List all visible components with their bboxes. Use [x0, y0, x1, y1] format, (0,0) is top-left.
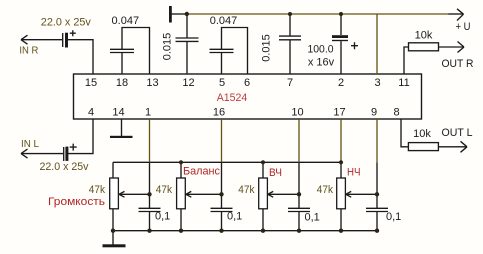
- svg-text:10k: 10k: [413, 128, 431, 140]
- svg-text:16: 16: [213, 107, 225, 119]
- svg-text:5: 5: [219, 77, 225, 89]
- svg-text:10k: 10k: [415, 29, 433, 41]
- svg-text:Громкость: Громкость: [48, 196, 105, 208]
- svg-text:22.0 x 25v: 22.0 x 25v: [41, 17, 91, 29]
- svg-text:IN R: IN R: [19, 45, 38, 57]
- svg-text:4: 4: [88, 107, 94, 119]
- svg-text:0,1: 0,1: [227, 210, 242, 222]
- svg-text:0.015: 0.015: [261, 34, 273, 62]
- svg-text:0.015: 0.015: [162, 33, 174, 61]
- svg-text:0,1: 0,1: [155, 210, 170, 222]
- svg-text:13: 13: [146, 77, 158, 89]
- svg-text:OUT R: OUT R: [442, 58, 474, 70]
- svg-text:9: 9: [371, 107, 377, 119]
- svg-text:6: 6: [244, 77, 250, 89]
- svg-text:НЧ: НЧ: [347, 167, 361, 179]
- svg-text:17: 17: [333, 107, 345, 119]
- svg-text:0.047: 0.047: [112, 15, 140, 27]
- svg-text:ВЧ: ВЧ: [269, 167, 282, 179]
- svg-text:15: 15: [85, 77, 97, 89]
- svg-text:+ U: + U: [456, 21, 471, 33]
- svg-text:0,1: 0,1: [305, 212, 320, 224]
- svg-text:11: 11: [398, 77, 409, 89]
- svg-text:10: 10: [291, 107, 303, 119]
- svg-text:IN L: IN L: [21, 138, 39, 150]
- svg-text:12: 12: [182, 77, 194, 89]
- svg-text:47k: 47k: [238, 184, 255, 196]
- svg-text:47k: 47k: [89, 184, 106, 196]
- svg-text:x 16v: x 16v: [308, 57, 335, 69]
- svg-text:14: 14: [112, 107, 124, 119]
- svg-text:Баланс: Баланс: [183, 166, 220, 178]
- svg-text:0.047: 0.047: [210, 15, 238, 27]
- svg-text:A1524: A1524: [217, 92, 248, 104]
- svg-text:100.0: 100.0: [308, 44, 334, 56]
- svg-text:3: 3: [374, 77, 380, 89]
- svg-text:7: 7: [287, 77, 293, 89]
- svg-text:8: 8: [393, 107, 399, 119]
- svg-text:2: 2: [338, 77, 344, 89]
- svg-text:47k: 47k: [317, 184, 334, 196]
- svg-text:OUT L: OUT L: [442, 127, 473, 139]
- svg-text:18: 18: [116, 77, 128, 89]
- svg-text:47k: 47k: [156, 184, 173, 196]
- svg-text:1: 1: [145, 107, 151, 119]
- svg-text:22.0 x 25v: 22.0 x 25v: [40, 161, 89, 173]
- svg-text:0,1: 0,1: [386, 211, 401, 223]
